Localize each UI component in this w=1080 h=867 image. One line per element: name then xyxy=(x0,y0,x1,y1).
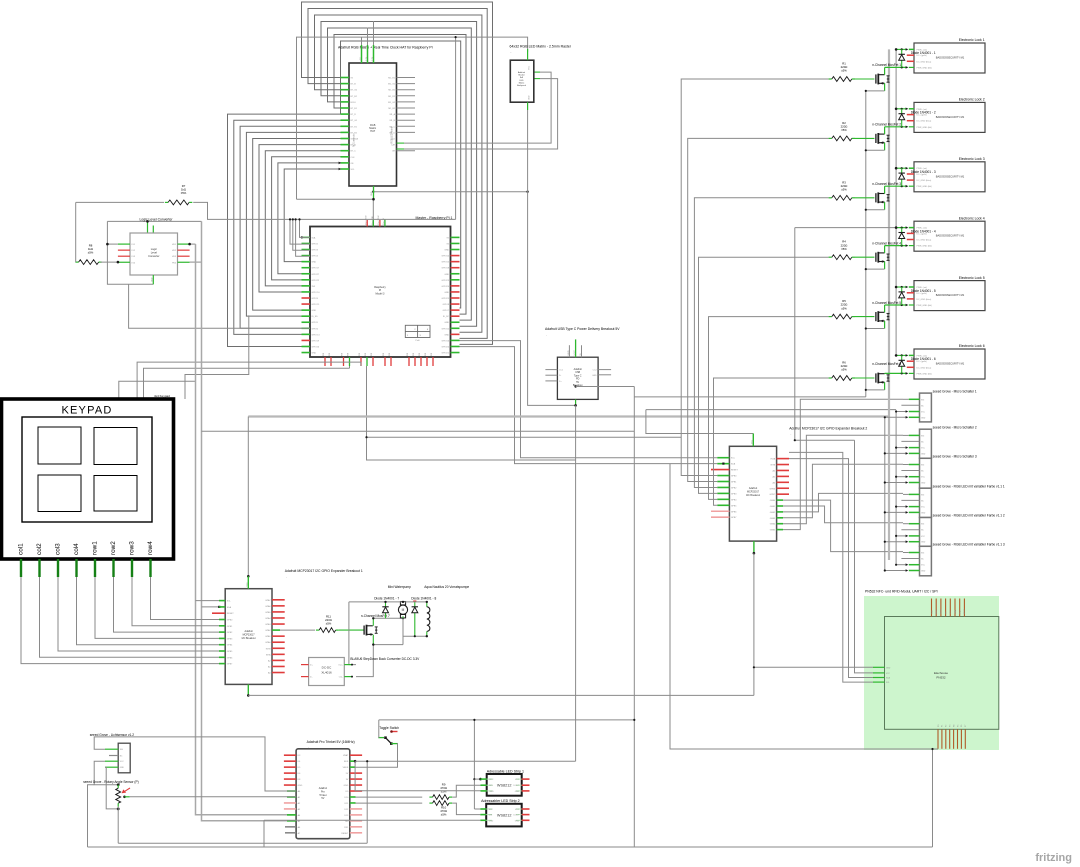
svg-text:64x32 RGB LED Matrix - 2.5mm R: 64x32 RGB LED Matrix - 2.5mm Raster xyxy=(510,45,572,49)
wire: mosfet 4 drain to PWR_GND xyxy=(884,246,886,253)
svg-text:GPA3: GPA3 xyxy=(770,517,776,520)
transistor Q7: n-channel mosfet xyxy=(363,626,365,635)
svg-text:Electronic Lock 2: Electronic Lock 2 xyxy=(959,98,985,102)
svg-text:I2C Breakout: I2C Breakout xyxy=(746,494,760,497)
wire: hidden link behind keypad lower xyxy=(119,381,196,399)
wire: lock source GND vertical x=865.8 xyxy=(865,91,867,397)
wire: HAT LAT to 64x32 matrix upper right pin xyxy=(397,142,405,144)
lock 5 PWR+ pin wire xyxy=(896,286,907,288)
keypad 4x4 body xyxy=(2,399,174,559)
IC: DC-DC XL4016 buck converter body xyxy=(309,658,345,686)
svg-text:D-: D- xyxy=(559,375,561,377)
svg-text:INTB: INTB xyxy=(770,465,775,467)
Pi pin header table xyxy=(405,325,430,337)
svg-text:GPIO 13: GPIO 13 xyxy=(312,334,321,336)
wire: HAT bottom pin riser down to Pi top pin xyxy=(372,199,374,226)
svg-text:row4: row4 xyxy=(147,541,154,555)
svg-text:INTB: INTB xyxy=(266,648,271,650)
diode D4 1N4001 flyback xyxy=(901,228,903,246)
wire: light sensor SIG to trinket A0 xyxy=(94,737,296,791)
keypad inner frame xyxy=(22,417,152,522)
svg-text:GPB5: GPB5 xyxy=(731,505,737,507)
lock 1 DC+ red stub xyxy=(907,54,914,56)
wire: GND bus from MCP1 to MCP2 riser y=695.4 xyxy=(248,694,754,696)
inductor: solenoid coil xyxy=(426,602,428,607)
svg-text:GND: GND xyxy=(444,292,449,294)
grove module 2 body xyxy=(920,429,932,458)
wire: mosfet 5 drain to PWR_GND xyxy=(884,305,886,312)
wire: I2C bus vertical pair down page (SDA) xyxy=(202,221,297,820)
grove 4 NC stub xyxy=(901,499,919,501)
svg-text:M: M xyxy=(402,608,405,612)
svg-text:GPIO16: GPIO16 xyxy=(441,340,449,342)
svg-text:GPIO17: GPIO17 xyxy=(312,268,320,270)
svg-text:±5%: ±5% xyxy=(841,306,847,310)
wire: grove VCC chain feed y=409.6 xyxy=(646,409,896,411)
wire: thick 12V bus vertical x=891.5 xyxy=(888,49,890,560)
wire: LLC HV1 to I2C riser pair xyxy=(190,243,196,245)
svg-text:GPA1: GPA1 xyxy=(770,505,776,508)
lock 1 DC_GND red stub xyxy=(907,60,914,62)
grove 5 VCC pin wire xyxy=(896,535,907,537)
svg-text:GND: GND xyxy=(489,791,494,793)
svg-text:SIG: SIG xyxy=(921,553,925,555)
matrix bottom GND pin wire down to USB-C breakout xyxy=(527,102,529,110)
svg-text:VBUS: VBUS xyxy=(343,767,349,769)
IC: Master Raspberry Pi body xyxy=(310,227,451,358)
grove 6 SIG pin wire xyxy=(903,552,909,554)
grove 1 VCC pin wire xyxy=(896,411,907,413)
svg-text:n-Channel MosFet 6: n-Channel MosFet 6 xyxy=(872,362,901,366)
MCP2 bottom GND pin to GND bus xyxy=(753,541,755,553)
rotary sensor potentiometer symbol xyxy=(117,783,120,786)
svg-text:SDA: SDA xyxy=(731,463,736,466)
wires: MCP2 left gate-feed verticals from lock rows (6) xyxy=(681,79,828,476)
svg-text:Backpack: Backpack xyxy=(517,85,526,87)
svg-text:PN532 NFC- und RFID-Modul, UAR: PN532 NFC- und RFID-Modul, UART / I2C / … xyxy=(865,590,938,594)
wire: mosfet7 drain riser to pump rail xyxy=(372,618,374,626)
svg-text:GND: GND xyxy=(921,571,926,573)
keypad pin stubs (dark green) xyxy=(20,559,22,577)
svg-text:IRQ: IRQ xyxy=(960,610,962,614)
svg-text:GPB2: GPB2 xyxy=(731,487,737,489)
svg-text:RSTO: RSTO xyxy=(964,608,966,614)
svg-text:PWR_GND (blk): PWR_GND (blk) xyxy=(917,67,933,69)
wire: DC-DC Out+ riser to pump top rail xyxy=(349,602,356,665)
svg-text:DC_GND (blau): DC_GND (blau) xyxy=(917,367,932,369)
svg-text:GND: GND xyxy=(120,767,125,769)
svg-text:n-Channel MosFet 1: n-Channel MosFet 1 xyxy=(872,63,901,67)
svg-text:VCC: VCC xyxy=(752,439,754,444)
lock 5 PWR_GND pin wire xyxy=(885,304,908,306)
wire bundle B: HAT lower left pins staircase to Raspberry Pi left pins (10 lines) xyxy=(228,114,341,346)
grove light sensor body xyxy=(118,743,130,773)
wire: PN532 GND from GND bus riser xyxy=(754,666,873,668)
wire bundle A: HAT left pins to top loops to Pi right pins (7 nested loops) xyxy=(302,2,493,344)
svg-text:P6: P6 xyxy=(961,725,963,727)
Pi left pins (20) xyxy=(302,236,311,238)
svg-text:PWR_GND (blk): PWR_GND (blk) xyxy=(917,305,933,307)
svg-text:GPIO25: GPIO25 xyxy=(441,298,449,300)
svg-text:Adafruit: Adafruit xyxy=(518,71,525,74)
svg-text:VCC: VCC xyxy=(247,582,249,587)
svg-text:GPB7: GPB7 xyxy=(770,494,776,496)
grove module 5 body xyxy=(920,518,932,547)
strip1 left pins xyxy=(481,778,487,780)
svg-text:n-Channel MosFet 5: n-Channel MosFet 5 xyxy=(872,301,901,305)
svg-text:BAD0303SECURITY M1: BAD0303SECURITY M1 xyxy=(936,174,965,178)
wire: Pi I2C to MCP2 (SCL) xyxy=(460,341,718,458)
svg-text:±5%: ±5% xyxy=(841,128,847,132)
svg-text:P7: P7 xyxy=(965,725,967,727)
red tick at diode8 top xyxy=(413,600,416,602)
wire: light sensor GND down to rotary bottom xyxy=(105,767,118,809)
svg-text:DIN: DIN xyxy=(489,785,493,787)
svg-text:GPB3: GPB3 xyxy=(731,493,737,495)
svg-text:GND: GND xyxy=(312,262,317,264)
diode D1 1N4001 flyback xyxy=(901,49,903,67)
diode D7 1N4001 xyxy=(385,602,387,618)
svg-text:±5%: ±5% xyxy=(181,191,187,195)
svg-text:BT_G1: BT_G1 xyxy=(351,120,358,122)
wire: trinket BUS down to bottom bus xyxy=(366,761,368,843)
svg-text:GND: GND xyxy=(444,334,449,336)
svg-text:seeed Grove - Micro Schalter 2: seeed Grove - Micro Schalter 2 xyxy=(933,425,977,429)
svg-text:Out-: Out- xyxy=(339,676,343,679)
svg-text:BAD0303SECURITY M1: BAD0303SECURITY M1 xyxy=(936,115,965,119)
lock 4 DC_GND red stub xyxy=(907,239,914,241)
grove 3 GND pin wire xyxy=(885,482,908,484)
svg-text:±5%: ±5% xyxy=(841,247,847,251)
PN532 left pins GND VCC SDA SCL xyxy=(873,666,885,668)
wire: riser to Pi left row3 xyxy=(296,219,310,256)
svg-text:GPB4: GPB4 xyxy=(731,499,737,501)
svg-text:n-Channel MosFet 3: n-Channel MosFet 3 xyxy=(872,182,901,186)
PN532 green board background xyxy=(864,596,999,750)
svg-text:DC_GND (blau): DC_GND (blau) xyxy=(917,61,932,63)
svg-text:Elechouse: Elechouse xyxy=(934,671,948,675)
diode D8 1N4001 xyxy=(414,602,416,636)
USB-C top pins xyxy=(568,345,570,357)
electronic lock 1 body xyxy=(914,43,985,73)
svg-text:row2: row2 xyxy=(110,541,117,555)
wire: MCP1 VCC riser from 5V bus xyxy=(247,417,249,577)
svg-text:Electronic Lock 3: Electronic Lock 3 xyxy=(959,157,985,161)
svg-text:GPIO18: GPIO18 xyxy=(441,268,449,270)
svg-text:GPIO6: GPIO6 xyxy=(312,328,319,330)
strip1 right red stubs xyxy=(516,778,522,780)
svg-text:±5%: ±5% xyxy=(88,251,94,255)
svg-text:seeed Grove - Micro Schalter 1: seeed Grove - Micro Schalter 1 xyxy=(933,389,977,393)
wire: lock4 PWR+ long feed down to PN532 VCC line xyxy=(794,228,796,441)
svg-text:Logic Level Converter: Logic Level Converter xyxy=(140,218,174,222)
svg-text:ID_SC: ID_SC xyxy=(443,316,450,318)
wire: MCP1 SCL from I2C riser xyxy=(196,600,220,602)
svg-text:VCC: VCC xyxy=(921,477,926,479)
svg-text:SCL: SCL xyxy=(886,682,890,684)
svg-text:WS8212: WS8212 xyxy=(497,813,512,817)
svg-text:PN532: PN532 xyxy=(936,676,946,680)
svg-text:DC+ (gelb): DC+ (gelb) xyxy=(917,115,927,117)
diode D6 1N4001 flyback xyxy=(901,355,903,373)
svg-text:GPIO19: GPIO19 xyxy=(312,340,320,342)
svg-text:GND: GND xyxy=(152,277,154,282)
wire: LLC LV1 junction xyxy=(107,243,118,245)
wire: hidden link behind keypad upper xyxy=(185,315,249,399)
svg-text:DC_GND (blau): DC_GND (blau) xyxy=(917,299,932,301)
svg-text:DC_GND (blau): DC_GND (blau) xyxy=(917,180,932,182)
svg-text:GPIO3: GPIO3 xyxy=(312,250,319,252)
grove 6 VCC pin wire xyxy=(896,564,907,566)
svg-text:In-: In- xyxy=(310,677,313,679)
svg-text:seeed Grove - Rotary Angle Sen: seeed Grove - Rotary Angle Sensor (P) xyxy=(83,780,138,784)
svg-text:PWR_GND (blk): PWR_GND (blk) xyxy=(917,246,933,248)
svg-text:5V: 5V xyxy=(321,797,324,800)
svg-text:INTA: INTA xyxy=(771,458,776,461)
svg-text:GPB5: GPB5 xyxy=(227,651,233,653)
keypad button square 4 xyxy=(94,476,137,512)
grove module 4 body xyxy=(920,488,932,517)
trinket left pins (14) xyxy=(284,754,296,756)
svg-text:PWR_GND (blk): PWR_GND (blk) xyxy=(917,186,933,188)
svg-text:GPA1: GPA1 xyxy=(265,635,271,638)
svg-text:seeed Grove - RGB LED mit vari: seeed Grove - RGB LED mit variabler Farb… xyxy=(933,514,1005,518)
svg-text:GPB6: GPB6 xyxy=(731,511,737,513)
svg-text:col2: col2 xyxy=(36,543,43,555)
wire: source rail to pump bottom xyxy=(373,644,403,646)
svg-text:BT_R2: BT_R2 xyxy=(351,132,358,134)
wire: matrix 5V feed from HAT top area, y=37 to 64x32 matrix xyxy=(297,37,528,199)
svg-text:GPIO23: GPIO23 xyxy=(441,280,449,282)
trinket right pins (14) xyxy=(350,754,362,756)
svg-text:GND: GND xyxy=(592,375,597,377)
svg-text:VCC: VCC xyxy=(921,565,926,567)
wire: pump top rail y=601.9 xyxy=(349,601,427,603)
svg-text:GPA6: GPA6 xyxy=(265,605,271,608)
svg-text:Diode 1N4001 - 1: Diode 1N4001 - 1 xyxy=(911,51,936,55)
svg-text:GPIO26: GPIO26 xyxy=(312,346,320,348)
svg-text:P0: P0 xyxy=(938,725,940,727)
wire: mosfet 4 source to GND bus xyxy=(884,262,886,270)
svg-text:VCC: VCC xyxy=(921,507,926,509)
wire: rail junction at GND vertical xyxy=(633,719,635,721)
svg-text:col4: col4 xyxy=(73,543,80,555)
svg-text:DC+ (gelb): DC+ (gelb) xyxy=(917,55,927,57)
svg-text:VBAT: VBAT xyxy=(343,754,349,757)
wire: R7 top rail y=202.4 xyxy=(76,201,164,203)
svg-text:KEYPAD: KEYPAD xyxy=(61,405,112,417)
keypad button square 3 xyxy=(38,475,81,512)
grove 5 GND pin wire xyxy=(885,541,908,543)
svg-text:WS8212: WS8212 xyxy=(497,783,512,787)
HAT top power pins xyxy=(361,37,363,45)
grove 2 VCC pin wire xyxy=(896,447,907,449)
wire: pump rail y=618.3 xyxy=(373,617,403,619)
grove 5 NC stub xyxy=(901,529,919,531)
svg-text:GND: GND xyxy=(515,791,520,793)
svg-text:BAD0303SECURITY M1: BAD0303SECURITY M1 xyxy=(936,293,965,297)
wire: light sensor VCC down to rotary top xyxy=(94,761,118,785)
svg-text:GPIO22: GPIO22 xyxy=(312,280,320,282)
svg-text:Model 3: Model 3 xyxy=(376,292,386,295)
motor: mini waterpump xyxy=(402,602,404,603)
wire: HAT OE to 64x32 matrix lower right pin xyxy=(397,148,405,150)
lock 4 PWR_GND pin wire xyxy=(885,245,908,247)
lock 4 PWR+ pin wire xyxy=(795,227,908,229)
PN532 bottom pins (8) xyxy=(937,729,939,749)
grove module 1 body xyxy=(920,393,932,422)
lock 6 DC_GND red stub xyxy=(907,366,914,368)
keypad button square 1 xyxy=(38,427,81,464)
svg-text:GPIO7: GPIO7 xyxy=(443,310,450,312)
wire: PN532 bottom pin 1 feed xyxy=(670,464,938,749)
svg-text:SGNDA: SGNDA xyxy=(351,138,359,141)
wire: PN532 SDA from MCP2 region riser xyxy=(789,459,873,678)
svg-text:SxA: SxA xyxy=(312,236,316,239)
svg-text:GPIO20: GPIO20 xyxy=(441,346,449,348)
wire: LLC left vertical to GND row xyxy=(107,221,153,284)
rotary wiper wire to trinket A1 xyxy=(123,796,126,799)
matrix top VCC pin xyxy=(527,49,529,60)
lock 2 DC+ red stub xyxy=(907,114,914,116)
svg-text:PWR_GND (blk): PWR_GND (blk) xyxy=(917,127,933,129)
svg-text:GPB0: GPB0 xyxy=(227,620,233,622)
wire: R8 right to LLC LV4 xyxy=(101,261,118,263)
toggle switch unconnected stub xyxy=(392,731,398,733)
svg-text:Level: Level xyxy=(151,250,158,254)
wire: MCP2 VCC feed from 5V bus xyxy=(646,410,753,434)
svg-text:GPIO5: GPIO5 xyxy=(312,322,319,324)
wire: GND vertical x=634.3 down to bottom bus xyxy=(633,387,635,848)
wire: trinket D11 to R10 to LED strip 2 xyxy=(356,802,423,804)
svg-text:Diode 1N4001 - 7: Diode 1N4001 - 7 xyxy=(374,596,399,600)
svg-text:col3: col3 xyxy=(55,543,62,555)
svg-text:PoE: PoE xyxy=(416,340,421,342)
svg-text:Electronic Lock 6: Electronic Lock 6 xyxy=(959,344,985,348)
svg-text:BT_B: BT_B xyxy=(351,84,357,86)
grove 1 SIG pin wire xyxy=(903,398,909,400)
svg-text:GPIO24: GPIO24 xyxy=(441,286,449,288)
wire: PN532 VCC from 3.3V riser xyxy=(855,440,874,673)
electronic lock 3 body xyxy=(914,162,985,192)
wire: R11 to mosfet 7 gate xyxy=(339,629,364,631)
svg-text:GPB6: GPB6 xyxy=(227,657,233,659)
svg-text:Adressabler LED Strip 2: Adressabler LED Strip 2 xyxy=(481,799,520,803)
svg-text:GND: GND xyxy=(298,785,303,787)
svg-text:seeed Grove - Lichtsensor v1.2: seeed Grove - Lichtsensor v1.2 xyxy=(90,733,135,737)
svg-text:SIG: SIG xyxy=(921,399,925,401)
Pi top pins xyxy=(366,220,368,227)
wire: R3 to mosfet 3 gate xyxy=(855,197,874,199)
svg-text:M1_R2: M1_R2 xyxy=(388,96,396,98)
svg-text:GND: GND xyxy=(921,512,926,514)
wire: mosfet 5 source to GND bus xyxy=(884,321,886,329)
light sensor pins xyxy=(105,748,118,750)
IC: Logic Level Converter body xyxy=(130,233,178,275)
svg-text:.: . xyxy=(511,50,512,54)
wire: R6 to mosfet 6 gate xyxy=(855,377,874,379)
svg-text:Out+: Out+ xyxy=(338,664,343,667)
electronic lock 5 body xyxy=(914,281,985,311)
lock 5 DC+ red stub xyxy=(907,292,914,294)
svg-text:GPIO14: GPIO14 xyxy=(441,256,449,258)
svg-text:VCC: VCC xyxy=(515,809,520,811)
wire: LLC HV4 to I2C riser pair xyxy=(190,261,202,263)
svg-text:GPIO12: GPIO12 xyxy=(441,328,449,330)
wire: riser to Pi left row2 xyxy=(293,219,310,250)
IC: Adafruit MCP23017 I2C GPIO Expander Breakout 1 body xyxy=(225,589,272,685)
svg-text:n-Channel MosFet 4: n-Channel MosFet 4 xyxy=(872,241,901,245)
svg-text:DC+ (gelb): DC+ (gelb) xyxy=(917,361,927,363)
PN532 inner module outline xyxy=(885,617,999,730)
wire: Pi I2C to MCP2 (SDA) xyxy=(460,347,718,464)
wire: I2C bus vertical pair down page (SCL) xyxy=(196,244,297,815)
svg-text:Diode 1N4001 - 8: Diode 1N4001 - 8 xyxy=(411,596,436,600)
svg-text:VCC: VCC xyxy=(529,65,531,70)
svg-text:MOSI: MOSI xyxy=(941,609,943,614)
svg-text:GPA4: GPA4 xyxy=(265,617,271,620)
diode D2 1N4001 flyback xyxy=(901,109,903,127)
64x32 RGB LED Matrix body xyxy=(510,60,534,102)
wire: switch output to trinket VBUS xyxy=(356,744,398,768)
svg-text:GPA0: GPA0 xyxy=(770,499,776,502)
svg-text:GPA0: GPA0 xyxy=(265,641,271,644)
svg-text:±5%: ±5% xyxy=(841,188,847,192)
svg-text:GND: GND xyxy=(921,453,926,455)
strip2 left pins xyxy=(480,808,486,810)
svg-text:SIG: SIG xyxy=(120,749,124,751)
svg-text:DC_GND (blau): DC_GND (blau) xyxy=(917,240,932,242)
wire: mosfet 2 drain to PWR_GND xyxy=(884,127,886,134)
svg-text:RGB LED Matrix: RGB LED Matrix xyxy=(391,126,394,144)
grove 4 SIG pin wire xyxy=(903,493,909,495)
svg-text:P5: P5 xyxy=(957,725,959,727)
svg-text:VCC: VCC xyxy=(515,779,520,781)
svg-text:BLA9U6 StepDown Buck Converter: BLA9U6 StepDown Buck Converter DC-DC 3.3… xyxy=(350,657,420,661)
wire: HAT bottom GND rail y=199.2 xyxy=(297,198,374,200)
svg-text:DOUT: DOUT xyxy=(514,815,520,817)
svg-text:ID_SD: ID_SD xyxy=(312,316,319,318)
wire: long link y=437.2 to lock1 gate riser xyxy=(367,436,682,438)
MCP2 right pins: 6 green GPA outputs xyxy=(777,499,783,501)
svg-text:DC_GND (blau): DC_GND (blau) xyxy=(917,121,932,123)
svg-text:VCC: VCC xyxy=(489,779,494,781)
svg-text:seeed Grove - Micro Schalter 3: seeed Grove - Micro Schalter 3 xyxy=(933,455,977,459)
wire: Pi SPI bottom stubs to left xyxy=(360,362,362,366)
svg-text:VCC: VCC xyxy=(921,448,926,450)
svg-text:±5%: ±5% xyxy=(326,622,332,626)
svg-text:BAD0303SECURITY M1: BAD0303SECURITY M1 xyxy=(936,234,965,238)
svg-text:GPB6: GPB6 xyxy=(770,488,776,490)
svg-text:DC+ (gelb): DC+ (gelb) xyxy=(917,293,927,295)
wires: MCP2 GPA outputs to Grove SIG pins (6 staircase) xyxy=(783,500,903,551)
wire: mosfet 1 source to GND bus xyxy=(884,83,886,91)
Pi bottom pins xyxy=(324,357,326,366)
svg-text:XL4016: XL4016 xyxy=(321,671,332,675)
svg-text:seeed Grove - RGB LED mit vari: seeed Grove - RGB LED mit variabler Farb… xyxy=(933,484,1005,488)
svg-text:DC-DC: DC-DC xyxy=(322,666,332,670)
svg-text:SDA: SDA xyxy=(227,606,232,609)
svg-text:Electronic Lock 1: Electronic Lock 1 xyxy=(959,38,985,42)
grove module 3 body xyxy=(920,458,932,488)
svg-text:RESET: RESET xyxy=(227,613,235,615)
svg-text:n-Channel MosFet 2: n-Channel MosFet 2 xyxy=(872,123,901,127)
svg-text:Aqua Nautilus 20 Vorratspumpe: Aqua Nautilus 20 Vorratspumpe xyxy=(424,585,469,589)
svg-text:GND: GND xyxy=(312,310,317,312)
op-amp U1: Adafruit RGB Matrix + Real Time Clock HAT IC body xyxy=(349,63,397,186)
lock 3 PWR_GND pin wire xyxy=(885,185,908,187)
wire: mosfet 6 source to GND bus xyxy=(884,382,886,390)
